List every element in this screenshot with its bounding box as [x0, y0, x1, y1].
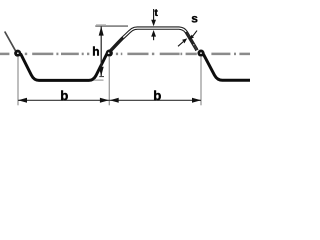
crest falling web end overdraw near right ball: [194, 45, 197, 50]
b arrow far right: [192, 98, 201, 103]
t dim lower head (up): [151, 30, 156, 37]
svg-text:t: t: [154, 7, 158, 19]
interlock ball middle: [106, 50, 113, 57]
crest outer (double line dark): [110, 28, 197, 51]
b arrow mid pointing left: [110, 98, 119, 103]
h dim arrow down: [99, 67, 104, 76]
interlock ball right: [197, 50, 204, 57]
b arrow far left: [18, 98, 27, 103]
b dimension line: [18, 99, 201, 101]
trough web+flange right sheet: [203, 53, 250, 80]
s dim lower tail: [178, 42, 183, 47]
falling web solid at bowtie crossing: [186, 32, 194, 45]
s dim upper tail: [193, 31, 197, 36]
h dim faint top tick: [96, 23, 106, 25]
crest rising web overdraw (single line near ball): [110, 38, 123, 52]
t dim upper line: [153, 9, 155, 20]
crest white core: [110, 28, 197, 51]
h dim arrow up: [99, 26, 104, 35]
svg-text:s: s: [191, 12, 198, 26]
h dim bottom tick: [99, 76, 104, 78]
b arrow mid pointing right: [100, 98, 109, 103]
s dim lower head: [182, 38, 187, 43]
b dim extension line middle: [108, 57, 110, 105]
trough web+flange left sheet: [21, 54, 108, 81]
svg-text:b: b: [153, 88, 161, 103]
svg-text:h: h: [92, 44, 99, 58]
adjacent sheet web stub top-left: [5, 32, 16, 51]
h dim top extension line: [95, 25, 128, 27]
flange mid reference extension (gray): [94, 79, 104, 81]
s dim upper head: [189, 35, 194, 40]
b dim extension line left: [17, 57, 19, 105]
svg-text:b: b: [60, 88, 68, 103]
b dim extension line right: [200, 57, 202, 105]
t dim upper head (down): [151, 20, 156, 26]
interlock ball left: [14, 50, 21, 57]
t dim lower tail: [153, 37, 155, 41]
centerline (dash-dot neutral axis): [0, 53, 250, 56]
h dim vertical line: [100, 27, 102, 76]
